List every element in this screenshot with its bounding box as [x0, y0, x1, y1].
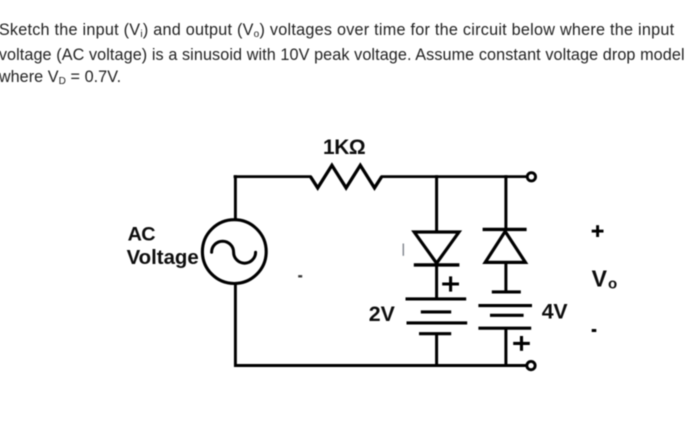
- battery B1 (2V, plus up): [406, 297, 467, 300]
- question text line 2: [0, 47, 685, 63]
- node artifact: small dark dash left of D1 branch: [298, 275, 302, 277]
- svg-text:Voltage: Voltage: [127, 247, 199, 269]
- diode D2 (right branch, cathode up): [483, 228, 527, 231]
- wire: bottom horizontal (AC source to output terminal): [234, 364, 526, 367]
- terminal: output + (top right): [527, 173, 535, 181]
- svg-text:4V: 4V: [542, 300, 569, 324]
- battery B1 polarity plus sign: [442, 282, 459, 285]
- node artifact: gray mark left of D1: [402, 244, 404, 256]
- wire: battery B1 to bottom wire: [435, 334, 438, 366]
- AC source V1 (circle): [202, 220, 266, 284]
- wire: D2 anode to battery B2: [504, 263, 507, 294]
- terminal: output - (bottom right): [527, 361, 535, 369]
- wire: D1 cathode to battery B1: [435, 265, 438, 300]
- wire: AC source top lead (left vertical): [234, 175, 237, 219]
- wire: D1 branch vertical (top wire down to diode D1): [435, 175, 438, 232]
- AC source sine wave: [212, 241, 256, 263]
- resistor R1: [311, 165, 382, 188]
- question text line 1: [0, 22, 674, 41]
- diode D1 (left branch, cathode down): [414, 232, 459, 263]
- svg-text:V: V: [592, 266, 608, 292]
- label output minus polarity: [592, 329, 597, 332]
- wire: battery B2 to bottom wire: [504, 328, 507, 366]
- battery B2 (4V, plus down): [492, 290, 521, 293]
- question text line 3: [0, 69, 121, 88]
- svg-text:o: o: [608, 276, 617, 293]
- svg-text:1KΩ: 1KΩ: [323, 136, 365, 159]
- svg-text:2V: 2V: [369, 302, 396, 326]
- wire: AC source bottom lead (left vertical): [234, 284, 237, 367]
- battery B2 polarity plus sign: [513, 342, 530, 345]
- wire: top horizontal (resistor to output terminal, with junctions): [381, 175, 527, 178]
- svg-text:AC: AC: [128, 223, 156, 245]
- wire: top-left horizontal (AC source to resistor): [234, 175, 312, 178]
- wire: D2 branch vertical (top wire down to diode D2): [504, 175, 507, 231]
- label output plus polarity: [592, 230, 604, 233]
